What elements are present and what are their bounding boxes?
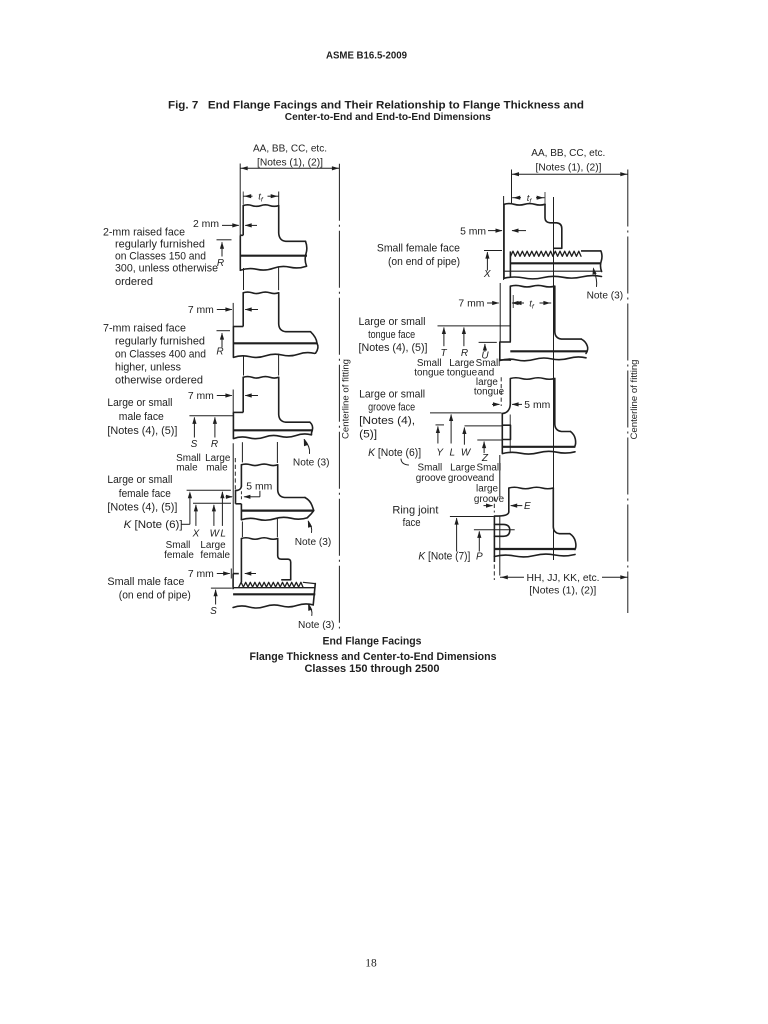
svg-text:5 mm: 5 mm xyxy=(246,481,272,492)
svg-text:higher, unless: higher, unless xyxy=(115,362,182,374)
R2 U tick xyxy=(479,341,497,343)
L4 bottom wavy break line xyxy=(241,517,307,520)
R1 note 3 leader xyxy=(594,269,597,287)
svg-text:regularly furnished: regularly furnished xyxy=(115,336,205,348)
L5 bore line xyxy=(233,593,315,595)
R4 dashed extension upper xyxy=(493,497,495,513)
L4 5mm leader with elbow xyxy=(259,491,261,497)
R2 flange wavy top xyxy=(510,285,555,287)
svg-text:L: L xyxy=(220,528,226,539)
R1 X tick xyxy=(484,250,502,252)
R3 Z leader line xyxy=(477,439,502,441)
R1 flange left edge / lip face xyxy=(503,204,505,278)
R2 R arrow xyxy=(463,328,465,347)
svg-text:[Notes (4), (5)]: [Notes (4), (5)] xyxy=(107,502,177,514)
svg-text:(5)]: (5)] xyxy=(359,428,377,440)
svg-text:S: S xyxy=(210,606,217,617)
R3 K hook leader xyxy=(401,459,409,465)
svg-text:tongue: tongue xyxy=(474,387,505,398)
R1 flange right edge and step xyxy=(545,204,562,248)
R1 X arrow xyxy=(486,252,488,270)
L1 R tick xyxy=(217,239,232,241)
L5 bottom wavy break line xyxy=(233,604,313,608)
R4 bore line xyxy=(494,548,575,550)
R3 bottom wavy break line xyxy=(502,451,575,454)
R1 pipe outer beyond threads xyxy=(581,250,601,252)
svg-text:K [Note (6)]: K [Note (6)] xyxy=(368,447,421,459)
R3 fillet to lip xyxy=(502,404,510,414)
L5 thread zigzag xyxy=(239,582,303,587)
svg-text:Small: Small xyxy=(418,463,443,474)
L4 flange wavy top xyxy=(241,464,277,466)
svg-text:2 mm: 2 mm xyxy=(193,219,219,230)
L2 R arrow xyxy=(221,333,223,347)
right column: AA dimension line xyxy=(512,173,628,175)
L1 bore line xyxy=(240,255,307,257)
R1 lip inner edge xyxy=(509,251,511,277)
svg-text:7 mm: 7 mm xyxy=(188,569,214,580)
L5 flange right edge with step xyxy=(278,539,291,580)
svg-text:AA, BB, CC, etc.: AA, BB, CC, etc. xyxy=(253,143,327,154)
svg-text:5 mm: 5 mm xyxy=(460,226,486,237)
R2 tongue block xyxy=(500,342,511,360)
R3 bore line xyxy=(502,446,575,448)
svg-text:Large: Large xyxy=(450,463,476,474)
HH dimension line left part xyxy=(500,576,524,578)
svg-text:S: S xyxy=(191,439,198,450)
svg-text:[Notes (1), (2)]: [Notes (1), (2)] xyxy=(257,157,323,168)
L4 flange left edge upper xyxy=(240,465,242,487)
connector lines between L4 and L5 xyxy=(241,522,243,538)
svg-text:X: X xyxy=(483,269,491,280)
L4 5mm dashed extension xyxy=(240,491,242,500)
L4 upper leader line xyxy=(187,489,231,491)
L1 2mm step xyxy=(240,234,243,236)
L3 leader line for S R xyxy=(189,415,233,417)
R2 U arrow xyxy=(484,344,486,352)
svg-text:Centerline of fitting: Centerline of fitting xyxy=(629,360,640,440)
svg-text:Ring joint: Ring joint xyxy=(392,505,438,517)
R2 bore line xyxy=(510,350,587,352)
R2 flange right edge and hub xyxy=(555,286,582,339)
R4 P leader line through groove xyxy=(474,529,515,531)
L5 thread engagement notch xyxy=(281,579,291,581)
svg-text:5 mm: 5 mm xyxy=(524,400,550,411)
svg-text:regularly furnished: regularly furnished xyxy=(115,238,205,250)
L3 step to male face xyxy=(233,411,243,413)
HH dimension line right part xyxy=(602,576,628,578)
L2 flange wavy top xyxy=(243,292,279,294)
svg-text:[Notes (1), (2)]: [Notes (1), (2)] xyxy=(529,585,596,596)
R4 ring joint face leader xyxy=(450,516,494,518)
R3 W leader line xyxy=(465,425,503,427)
R2 T arrow xyxy=(443,328,445,347)
R4 fillet to face xyxy=(494,512,508,516)
svg-text:[Notes (4), (5)]: [Notes (4), (5)] xyxy=(107,425,177,437)
R3 Y tick xyxy=(436,424,445,426)
L2 raised face edge xyxy=(232,327,234,358)
svg-text:groove: groove xyxy=(448,473,479,484)
svg-text:18: 18 xyxy=(365,958,377,970)
connector lines between L1 and L2 xyxy=(243,268,245,290)
R3 dashed extension at tongue plane xyxy=(500,377,502,406)
R1 flange wavy top xyxy=(504,204,545,206)
L1 pipe end wavy edge xyxy=(305,241,307,266)
svg-text:Small female face: Small female face xyxy=(377,243,460,255)
svg-text:tongue: tongue xyxy=(414,368,445,379)
svg-text:HH, JJ, KK, etc.: HH, JJ, KK, etc. xyxy=(527,573,600,584)
L3 note 3 leader xyxy=(304,440,309,454)
L5 S arrow xyxy=(215,590,217,605)
svg-text:ordered: ordered xyxy=(115,276,153,288)
R2 tf left extension xyxy=(512,295,514,308)
L4 bore line xyxy=(241,510,313,512)
L3 pipe end wavy edge xyxy=(310,422,313,435)
svg-text:[Notes (1), (2)]: [Notes (1), (2)] xyxy=(536,163,602,174)
L4 L arrow xyxy=(221,492,223,526)
svg-text:Small: Small xyxy=(477,463,502,474)
R3 Z arrow xyxy=(483,442,485,454)
svg-text:Small male face: Small male face xyxy=(107,576,184,588)
svg-text:groove face: groove face xyxy=(368,402,415,414)
svg-text:Large or small: Large or small xyxy=(359,316,426,328)
R1 pipe end wavy break xyxy=(600,251,601,272)
svg-text:male face: male face xyxy=(119,411,164,423)
R2 flange left edge below tongue xyxy=(509,359,511,362)
R3 groove rectangle xyxy=(503,425,511,439)
left column: AA left extension line xyxy=(239,164,241,236)
right column: AA left extension line xyxy=(511,170,513,204)
L5 flange left edge xyxy=(240,539,242,583)
L2 R tick xyxy=(217,330,231,332)
svg-text:tongue: tongue xyxy=(447,368,478,379)
R1 thread zigzag xyxy=(511,251,581,256)
svg-text:Large or small: Large or small xyxy=(359,389,425,401)
R4 flange left edge upper xyxy=(508,488,510,512)
svg-text:Flange Thickness and Center-to: Flange Thickness and Center-to-End Dimen… xyxy=(250,651,497,663)
svg-text:on Classes 400 and: on Classes 400 and xyxy=(115,349,206,361)
left long extension line through L4 labels xyxy=(232,443,234,577)
connector: thin vertical between R3 and R4 xyxy=(499,455,501,497)
L5 7mm extension line xyxy=(230,569,232,579)
R3 flange wavy top xyxy=(510,378,555,380)
svg-text:Classes 150 through 2500: Classes 150 through 2500 xyxy=(305,663,440,675)
L2 bottom wavy break line xyxy=(233,353,314,358)
svg-text:ASME B16.5-2009: ASME B16.5-2009 xyxy=(326,50,408,61)
svg-text:female: female xyxy=(164,550,194,561)
L3 flange left edge xyxy=(242,377,244,412)
L4 hidden recess dashed line xyxy=(234,458,236,490)
L3 bottom wavy break line xyxy=(233,434,311,439)
L4 flange left edge lower xyxy=(240,504,242,520)
L3 R arrow xyxy=(214,417,216,437)
R3 hidden face plane line xyxy=(509,415,511,453)
connector lines between L3 and L4 xyxy=(241,442,243,462)
svg-text:Note (3): Note (3) xyxy=(587,291,624,302)
svg-text:K [Note (7)]: K [Note (7)] xyxy=(418,550,470,562)
right column: centerline of fitting (dash-dot) xyxy=(627,170,629,614)
L2 7mm extension line xyxy=(232,303,234,327)
svg-text:tongue face: tongue face xyxy=(368,329,415,341)
L4 W arrow xyxy=(213,505,215,526)
R4 bottom wavy break line xyxy=(494,554,575,557)
R1 pipe lower line xyxy=(504,270,601,272)
L1 bottom wavy break line xyxy=(240,266,306,270)
L4 note 3 leader xyxy=(308,521,311,532)
L2 bore line xyxy=(233,342,317,344)
svg-text:Centerline of fitting: Centerline of fitting xyxy=(341,359,352,439)
R4 K arrow xyxy=(456,518,458,551)
svg-text:male: male xyxy=(176,463,198,474)
R2 bottom wavy break line xyxy=(500,357,586,361)
L4 flange right edge and hub xyxy=(278,465,305,498)
svg-text:7 mm: 7 mm xyxy=(188,305,214,316)
svg-text:Note (3): Note (3) xyxy=(295,537,332,548)
svg-text:male: male xyxy=(206,463,228,474)
R4 flange right edge and hub xyxy=(553,488,570,534)
R3 flange right edge and hub xyxy=(555,379,571,432)
svg-text:and: and xyxy=(478,473,494,484)
L4 lip bottom step xyxy=(236,503,242,505)
R1 long thin vertical at face plane xyxy=(503,196,505,280)
svg-text:otherwise ordered: otherwise ordered xyxy=(115,375,203,387)
connector: thin vertical between R1 and R2 xyxy=(499,283,501,342)
svg-text:Note (3): Note (3) xyxy=(293,458,330,469)
L3 flange wavy top xyxy=(243,377,279,379)
svg-text:large: large xyxy=(476,484,498,495)
svg-text:300, unless otherwise: 300, unless otherwise xyxy=(115,262,218,274)
L4 fillet to female lip xyxy=(236,486,242,490)
L4 pipe end wavy edge xyxy=(305,498,314,518)
svg-text:R: R xyxy=(211,439,218,450)
svg-text:Note (3): Note (3) xyxy=(298,620,335,631)
R2 flange left edge xyxy=(509,286,511,341)
svg-text:female: female xyxy=(200,550,230,561)
R3 flange left edge upper xyxy=(509,379,511,404)
svg-text:7 mm: 7 mm xyxy=(188,391,214,402)
L1 right extension line from tf xyxy=(278,192,280,206)
L5 pipe end break xyxy=(313,584,315,605)
svg-text:End Flange Facings: End Flange Facings xyxy=(323,636,422,648)
R3 W arrow xyxy=(463,428,465,445)
R1 bottom wavy break line xyxy=(504,276,602,279)
R4 long thin vertical through flange xyxy=(499,517,501,576)
R4 flange wavy top xyxy=(509,487,554,489)
L3 bore line xyxy=(233,429,312,431)
svg-text:W: W xyxy=(461,447,472,458)
L5 flange wavy top xyxy=(241,538,277,540)
L3 male face edge xyxy=(232,412,234,438)
left column: AA dimension line with arrows xyxy=(240,167,339,169)
R4 P arrow xyxy=(478,531,480,551)
R3 pipe end wavy edge xyxy=(571,432,576,447)
R3 lip face xyxy=(501,413,503,453)
L3 7mm extension line xyxy=(232,390,234,415)
svg-text:(on end of pipe): (on end of pipe) xyxy=(388,256,460,268)
R3 Y arrow xyxy=(437,427,439,444)
svg-text:7 mm: 7 mm xyxy=(458,299,484,310)
svg-text:K [Note (6)]: K [Note (6)] xyxy=(124,519,183,531)
L2 flange left edge xyxy=(242,293,244,327)
L3 S arrow xyxy=(193,417,195,437)
svg-text:X: X xyxy=(192,528,200,539)
L1 flange wavy top xyxy=(243,205,279,207)
svg-text:[Notes (4),: [Notes (4), xyxy=(359,415,415,427)
svg-text:[Notes (4), (5)]: [Notes (4), (5)] xyxy=(359,342,428,354)
R1 hub bottom step xyxy=(553,247,561,249)
svg-text:E: E xyxy=(524,501,531,512)
R1 pipe bore thick line xyxy=(510,262,601,264)
R2 pipe end wavy edge xyxy=(581,339,587,353)
svg-text:R: R xyxy=(216,347,223,358)
R2 leader line from label xyxy=(438,325,511,327)
R4 dashed extension lower xyxy=(493,565,495,581)
svg-text:Large or small: Large or small xyxy=(107,474,172,486)
R1 long thin vertical at hub plane xyxy=(553,197,555,560)
svg-text:Large or small: Large or small xyxy=(107,397,172,409)
L5 male ring face xyxy=(232,574,234,590)
svg-text:face: face xyxy=(403,517,421,529)
L2 flange right edge and hub xyxy=(279,293,311,332)
svg-text:(on end of pipe): (on end of pipe) xyxy=(119,590,191,602)
L5 pipe surface line xyxy=(233,587,315,589)
L2 pipe end wavy edge xyxy=(311,332,318,344)
L4 lower leader line xyxy=(193,502,231,504)
L4 female lip face xyxy=(235,491,237,504)
L4 5mm left arrow xyxy=(226,496,232,498)
L1 flange left edge xyxy=(242,206,244,236)
L1 flange right edge and hub xyxy=(279,206,306,242)
L5 note 3 leader xyxy=(309,604,312,615)
L4 K elbow leader with arrow xyxy=(181,523,190,525)
L1 R arrow xyxy=(221,242,223,256)
L3 flange right edge and hub xyxy=(279,377,310,422)
R4 face edge xyxy=(493,516,495,562)
svg-text:Center-to-End and End-to-End D: Center-to-End and End-to-End Dimensions xyxy=(285,112,491,123)
L2 7mm step xyxy=(233,326,243,328)
svg-text:groove: groove xyxy=(416,473,447,484)
R4 pipe end wavy edge xyxy=(570,534,576,550)
R3 top leader line xyxy=(430,412,502,414)
L5 S tick xyxy=(211,587,232,589)
left column: centerline of fitting (dash-dot) xyxy=(338,164,340,629)
svg-text:P: P xyxy=(476,551,483,562)
R3 L arrow xyxy=(450,415,452,444)
L4 X arrow xyxy=(195,505,197,526)
svg-text:2-mm raised face: 2-mm raised face xyxy=(103,227,185,239)
svg-text:L: L xyxy=(450,447,456,458)
svg-text:W: W xyxy=(210,528,221,539)
svg-text:female face: female face xyxy=(119,488,171,500)
connector lines between L2 and L3 xyxy=(243,357,245,376)
svg-text:7-mm raised face: 7-mm raised face xyxy=(103,323,186,335)
svg-text:AA, BB, CC, etc.: AA, BB, CC, etc. xyxy=(531,148,605,159)
svg-text:on Classes 150 and: on Classes 150 and xyxy=(115,250,206,262)
svg-text:Fig. 7 End Flange Facings an: Fig. 7 End Flange Facings and Their Rela… xyxy=(168,99,584,111)
R4 ring groove xyxy=(494,524,509,536)
L1 raised face edge xyxy=(239,235,241,269)
